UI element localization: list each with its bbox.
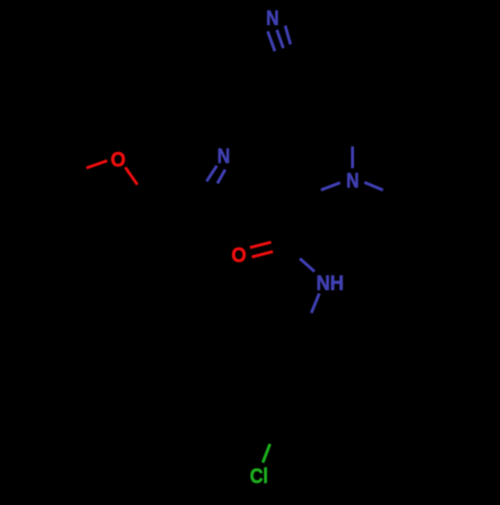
svg-text:N: N [266, 6, 279, 30]
amide N-H bonds (blue halves) [300, 259, 320, 314]
svg-text:NH: NH [316, 271, 344, 295]
furan O bonds (red halves) [86, 161, 137, 185]
imine N=C double bond (blue halves) [207, 166, 226, 184]
nitrile triple bond C#N (blue halves) [268, 26, 291, 52]
svg-text:N: N [217, 144, 230, 168]
svg-text:N: N [346, 169, 359, 193]
ring N bonds (blue halves) [321, 146, 383, 190]
svg-text:O: O [111, 147, 126, 171]
C-Cl bond (green half) [263, 444, 270, 463]
svg-text:Cl: Cl [250, 464, 268, 488]
svg-text:O: O [231, 243, 246, 267]
amide C=O double bond (red halves) [250, 242, 273, 257]
